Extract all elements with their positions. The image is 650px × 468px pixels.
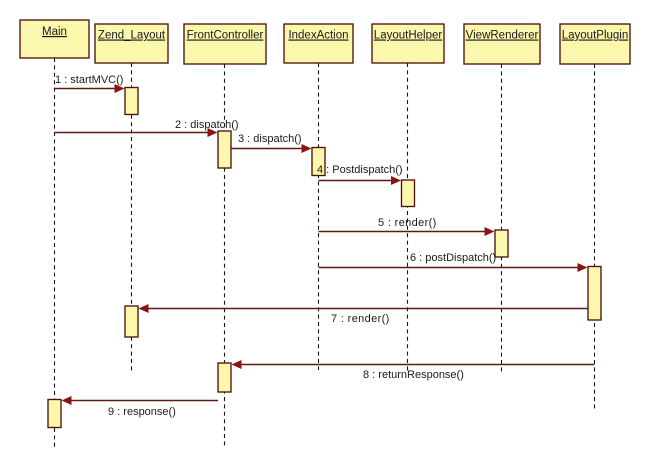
activation bar LayoutHelper 1 [402,180,415,207]
svg-text:3 : dispatch(): 3 : dispatch() [238,133,302,145]
activation bar Main 2 [48,400,61,428]
activation bar LayoutPlugin 1 [588,267,601,321]
svg-text:Zend_Layout: Zend_Layout [98,30,166,42]
message 7 render return arrow [139,304,589,313]
lifeline IndexAction [318,63,320,370]
svg-text:ViewRenderer: ViewRenderer [466,30,539,42]
lifeline Zend_Layout [131,63,133,372]
activation bar ViewRenderer 1 [495,230,508,257]
object box LayoutHelper [372,24,444,63]
svg-text:7 : render(): 7 : render() [331,313,390,325]
svg-text:6 : postDispatch(): 6 : postDispatch() [410,252,496,264]
activation bar Zend_Layout 2 [125,306,138,337]
lifeline FrontController [224,64,226,446]
object box IndexAction [284,24,353,63]
svg-text:1 : startMVC(): 1 : startMVC() [55,74,123,86]
message 6 label [410,252,496,264]
lifeline Main [54,58,56,448]
message 1 startMVC arrow [55,84,125,93]
message 4 Postdispatch arrow [319,176,402,185]
message 6 postDispatch arrow [319,263,588,272]
lifeline LayoutPlugin [594,64,596,409]
svg-text:9 : response(): 9 : response() [108,406,176,418]
lifeline ViewRenderer [501,64,503,373]
object box ViewRenderer [464,24,540,64]
message 7 label [331,313,390,325]
object box FrontController [184,24,266,64]
object box Main [20,20,89,58]
activation bar Zend_Layout 1 [125,88,138,115]
svg-text:Main: Main [42,26,67,38]
message 2 dispatch arrow [55,128,218,137]
svg-text:4 : Postdispatch(): 4 : Postdispatch() [317,164,403,176]
svg-text:8 : returnResponse(): 8 : returnResponse() [363,369,464,381]
message 8 label [363,369,464,381]
message 8 returnResponse arrow [232,360,595,369]
lifeline LayoutHelper [407,63,409,373]
message 5 render arrow [319,227,495,236]
message 9 response arrow [62,396,219,405]
activation bar IndexAction 1 [312,148,325,176]
svg-text:FrontController: FrontController [187,30,264,42]
object box Zend_Layout [95,24,168,63]
object box LayoutPlugin [560,24,630,64]
message 2 label [175,119,239,131]
message 5 label [378,217,437,229]
message 1 label [55,74,123,86]
svg-text:2 : dispatch(): 2 : dispatch() [175,119,239,131]
message 9 label [108,406,176,418]
message 3 dispatch arrow [231,144,312,153]
svg-text:LayoutHelper: LayoutHelper [374,30,443,42]
message 4 label [317,164,403,176]
activation bar FrontController 2 [218,363,231,392]
svg-text:IndexAction: IndexAction [288,30,348,42]
svg-text:5 : render(): 5 : render() [378,217,437,229]
message 3 label [238,133,302,145]
activation bar FrontController 1 [218,131,231,168]
svg-text:LayoutPlugin: LayoutPlugin [562,30,629,42]
